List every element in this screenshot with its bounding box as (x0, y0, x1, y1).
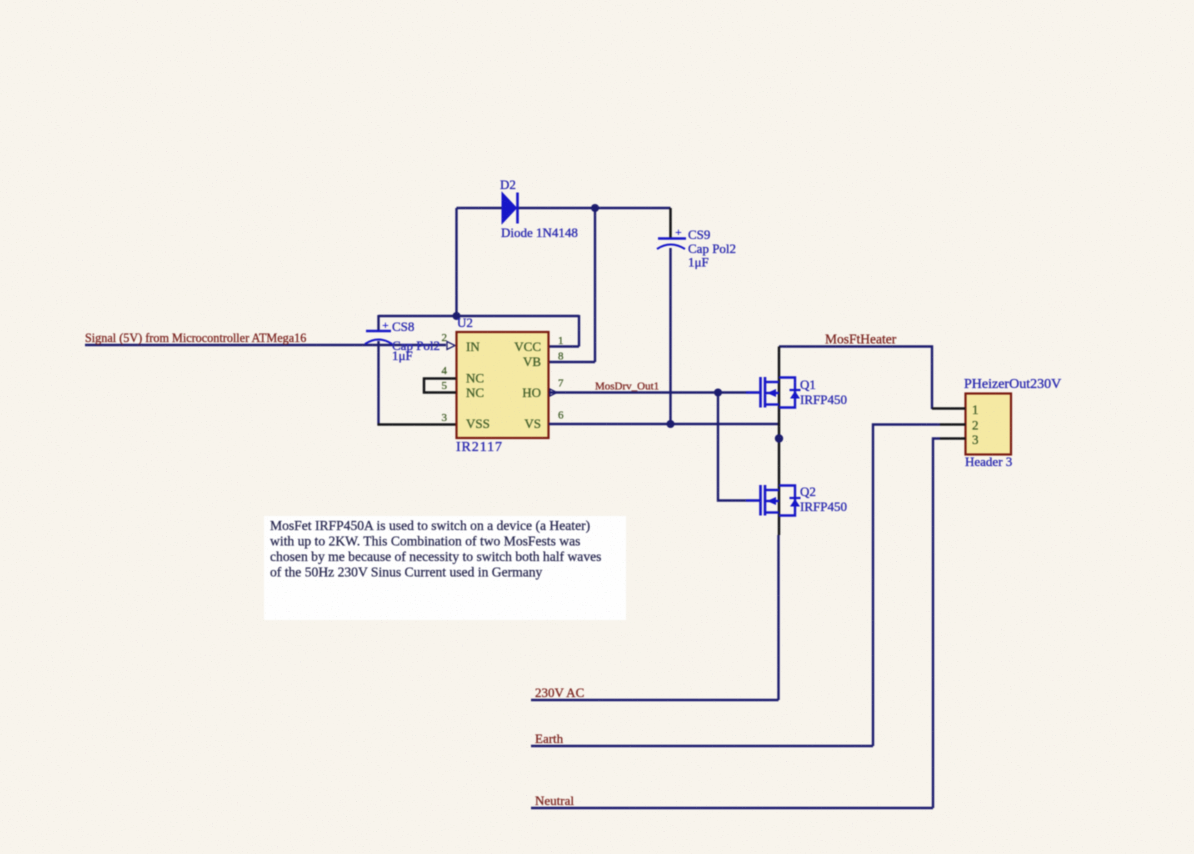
svg-text:IR2117: IR2117 (456, 440, 503, 455)
svg-text:with up to 2KW. This Combinati: with up to 2KW. This Combination of two … (270, 534, 580, 549)
wire VB branch vertical (594, 208, 596, 362)
capacitor CS9 (657, 225, 736, 270)
connector PHeizerOut230V header body (964, 377, 1061, 469)
svg-text:chosen by me because of necess: chosen by me because of necessity to swi… (270, 549, 601, 564)
svg-text:Q2: Q2 (800, 484, 816, 499)
wire NC pins 4-5 tie (424, 379, 456, 393)
svg-text:Q1: Q1 (800, 377, 816, 392)
svg-text:2: 2 (972, 418, 979, 433)
capacitor CS8 (365, 318, 440, 363)
svg-text:HO: HO (522, 385, 541, 400)
svg-text:MosFtHeater: MosFtHeater (825, 332, 897, 347)
svg-text:VS: VS (524, 416, 541, 431)
svg-text:of the 50Hz 230V Sinus Current: of the 50Hz 230V Sinus Current used in G… (270, 565, 543, 580)
pin header 1 stub (932, 407, 966, 410)
svg-text:CS9: CS9 (688, 227, 710, 242)
svg-text:1μF: 1μF (688, 255, 709, 270)
svg-text:1: 1 (558, 335, 564, 347)
svg-text:2: 2 (442, 332, 448, 344)
svg-text:8: 8 (558, 351, 564, 363)
svg-text:230V AC: 230V AC (535, 685, 584, 700)
wire VB pin 8 stub (549, 361, 595, 363)
wire MosFtHeater rail (779, 347, 932, 410)
wire 230V AC (531, 699, 779, 701)
transistor Q2 IRFP450 (746, 484, 847, 516)
IC U2 IR2117 gate driver (456, 315, 549, 455)
wire Q2 gate branch (718, 393, 760, 501)
pin header 2 stub (940, 423, 966, 426)
svg-text:MosFet IRFP450A is used to swi: MosFet IRFP450A is used to switch on a d… (270, 518, 590, 534)
pin HO output marker (550, 389, 557, 396)
wire top bootstrap rail (457, 207, 671, 209)
wire Q2 source to 230V (777, 535, 779, 700)
svg-text:1μF: 1μF (392, 348, 413, 363)
svg-text:3: 3 (442, 412, 448, 424)
wire CS9 lower segment (669, 248, 671, 424)
junction CS9-VS node (667, 420, 675, 428)
svg-text:7: 7 (558, 378, 564, 390)
wire CS8 lower segment (377, 341, 379, 426)
wire CS9 upper segment (669, 208, 672, 238)
wire Neutral (531, 807, 933, 809)
svg-text:IRFP450: IRFP450 (800, 499, 847, 514)
wire Q2 drain pin (778, 424, 781, 535)
svg-text:Diode 1N4148: Diode 1N4148 (501, 225, 578, 240)
svg-text:MosDrv_Out1: MosDrv_Out1 (595, 381, 659, 393)
svg-text:Header 3: Header 3 (965, 454, 1012, 469)
junction Q1 source node (775, 434, 783, 442)
wire HO output (549, 391, 760, 393)
junction HO gate branch node (714, 389, 722, 397)
svg-text:U2: U2 (457, 315, 473, 330)
svg-text:VCC: VCC (514, 339, 541, 354)
junction diode-VB node (591, 204, 599, 212)
wire header pin3 to Neutral (933, 439, 940, 809)
svg-text:IN: IN (466, 339, 480, 354)
svg-text:D2: D2 (500, 177, 516, 192)
svg-text:Neutral: Neutral (535, 793, 574, 808)
svg-text:+: + (382, 318, 389, 332)
wire VCC pin 1 stub (549, 315, 579, 347)
svg-text:3: 3 (972, 432, 979, 447)
wire header pin2 to Earth (873, 425, 940, 747)
svg-text:4: 4 (442, 365, 448, 377)
wire Earth (531, 745, 873, 747)
note text block (264, 516, 626, 620)
svg-text:VSS: VSS (466, 416, 490, 431)
svg-text:5: 5 (442, 380, 448, 392)
wire diode anode branch (455, 208, 457, 317)
svg-text:VB: VB (523, 354, 541, 369)
diode D2 (500, 177, 578, 240)
svg-text:CS8: CS8 (392, 319, 414, 334)
wire VSS to pin 3 (378, 423, 457, 426)
wire Q1 drain pin (778, 347, 781, 425)
wire signal input (85, 342, 455, 350)
svg-text:+: + (675, 225, 682, 239)
wire CS8 upper segment (377, 315, 379, 331)
svg-text:1: 1 (972, 402, 979, 417)
svg-text:NC: NC (466, 371, 484, 386)
svg-text:Earth: Earth (535, 731, 564, 746)
junction VCC node (453, 312, 461, 320)
svg-text:IRFP450: IRFP450 (800, 392, 847, 407)
wire VS output (549, 423, 779, 425)
svg-text:Signal (5V) from Microcontroll: Signal (5V) from Microcontroller ATMega1… (85, 331, 306, 345)
svg-text:6: 6 (558, 410, 564, 422)
svg-text:NC: NC (466, 385, 484, 400)
transistor Q1 IRFP450 (746, 377, 847, 408)
wire VCC top rail (379, 315, 580, 317)
pin header 3 stub (940, 437, 966, 440)
svg-text:PHeizerOut230V: PHeizerOut230V (964, 377, 1061, 392)
